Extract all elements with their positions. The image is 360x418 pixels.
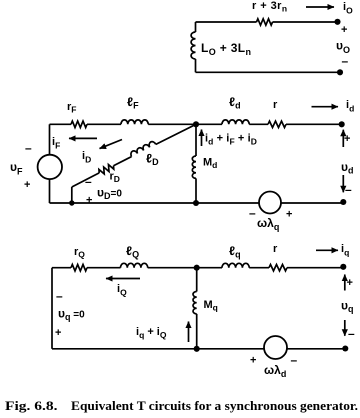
wire top-circuit top (right of resistor) <box>273 21 338 23</box>
svg-text:υF: υF <box>10 160 23 177</box>
svg-text:Md: Md <box>203 157 217 171</box>
current arrow iO <box>306 6 334 8</box>
svg-text:υO: υO <box>336 39 350 56</box>
inductor lD (rotated) <box>130 140 156 156</box>
svg-text:iq: iq <box>341 243 349 258</box>
svg-text:+: + <box>286 209 292 221</box>
resistor rD (rotated) <box>98 163 115 176</box>
current arrow iq <box>316 249 338 251</box>
resistor rF <box>71 121 87 127</box>
svg-text:iO: iO <box>343 1 353 16</box>
svg-text:id + iF + iD: id + iF + iD <box>205 133 257 147</box>
polarity arrow vq up <box>344 275 346 291</box>
terminal node q-axis top right <box>340 264 346 270</box>
wire d-axis left vertical upper <box>49 124 51 154</box>
wire diagonal riser <box>71 187 73 203</box>
svg-text:rD: rD <box>110 171 120 185</box>
svg-text:r: r <box>273 99 278 111</box>
svg-text:υD=0: υD=0 <box>97 186 122 202</box>
svg-text:–: – <box>345 183 352 197</box>
resistor r (d-axis) <box>268 121 286 127</box>
current arrow iD <box>100 140 123 149</box>
svg-text:iq + iQ: iq + iQ <box>136 326 167 340</box>
svg-text:–: – <box>56 289 63 303</box>
wire top-circuit left vertical (lower stub) <box>195 59 197 72</box>
svg-text:+: + <box>86 195 92 207</box>
wire q-axis bottom left <box>52 348 264 350</box>
inductor ld <box>222 120 249 124</box>
inductor Md <box>192 156 196 178</box>
svg-text:iD: iD <box>82 150 91 165</box>
resistor rQ <box>71 265 87 271</box>
svg-text:+: + <box>250 355 256 367</box>
svg-text:Mq: Mq <box>204 299 218 313</box>
svg-text:ωλq: ωλq <box>257 216 279 232</box>
wire q-axis top 2 <box>87 267 121 269</box>
svg-text:ωλd: ωλd <box>264 363 286 379</box>
source wld circle <box>264 336 287 359</box>
svg-text:ℓF: ℓF <box>127 95 139 111</box>
polarity arrow vd up <box>342 130 344 147</box>
svg-text:Equivalent T circuits for a sy: Equivalent T circuits for a synchronous … <box>71 398 358 413</box>
svg-text:+: + <box>55 327 61 339</box>
inductor lQ <box>121 263 148 267</box>
inductor Md branch lower wire <box>195 178 197 203</box>
svg-text:ℓd: ℓd <box>229 95 241 111</box>
terminal node q-axis bottom right <box>342 345 348 351</box>
wire d-axis top 1 <box>50 123 72 125</box>
svg-text:ℓQ: ℓQ <box>126 244 139 260</box>
current arrow iQ <box>106 278 140 280</box>
wire d-axis bottom right <box>281 202 343 204</box>
wire q-axis top 1 <box>52 267 71 269</box>
resistor r (q-axis) <box>269 265 287 271</box>
svg-text:Fig. 6.8.: Fig. 6.8. <box>5 398 58 413</box>
wire q-axis left vertical <box>51 268 53 349</box>
wire q-axis top 4 <box>249 267 269 269</box>
inductor Mq branch lower wire <box>196 314 198 349</box>
wire d-axis top 4 <box>249 123 268 125</box>
svg-text:–: – <box>342 54 349 68</box>
source wlq circle <box>259 192 281 214</box>
inductor lq <box>222 263 249 267</box>
svg-text:id: id <box>346 99 354 114</box>
svg-text:r: r <box>273 243 278 255</box>
inductor Mq branch upper wire <box>196 268 198 292</box>
voltage source vF <box>38 155 62 179</box>
svg-text:υq: υq <box>341 299 353 315</box>
svg-text:υd: υd <box>341 160 353 176</box>
wire q-axis bottom right <box>287 348 345 350</box>
svg-text:+: + <box>341 24 347 36</box>
svg-text:rQ: rQ <box>74 246 85 260</box>
current arrow id+iF+iD <box>201 130 203 147</box>
wire d-axis left vertical lower <box>49 179 51 203</box>
svg-text:+: + <box>344 133 350 145</box>
svg-text:–: – <box>291 353 298 367</box>
svg-text:iQ: iQ <box>117 283 127 298</box>
resistor r+3rn <box>257 19 273 25</box>
terminal node d-axis top right <box>339 121 345 127</box>
inductor lF <box>121 120 148 124</box>
wire diagonal segment 1 <box>72 173 99 187</box>
wire d-axis top 2 <box>87 123 121 125</box>
svg-text:LO + 3Ln: LO + 3Ln <box>201 41 251 57</box>
inductor Mq <box>193 292 197 314</box>
svg-text:–: – <box>85 175 92 189</box>
polarity arrow vd down <box>342 175 344 192</box>
wire d-axis bottom left <box>50 202 260 204</box>
node dot Mq bottom <box>194 346 200 352</box>
svg-text:–: – <box>25 141 32 155</box>
polarity arrow vq down <box>344 320 346 336</box>
node dot q-axis top junction <box>194 265 200 271</box>
svg-text:+: + <box>347 277 353 289</box>
svg-text:iF: iF <box>52 136 60 151</box>
wire q-axis top 5 <box>287 267 343 269</box>
svg-text:rF: rF <box>67 101 76 115</box>
wire top-circuit left vertical (upper stub) <box>195 22 197 32</box>
svg-text:ℓq: ℓq <box>229 244 241 260</box>
svg-text:r + 3rn: r + 3rn <box>252 0 288 14</box>
terminal node top-circuit bottom <box>337 69 343 75</box>
wire top-circuit top (left of resistor) <box>196 21 257 23</box>
svg-text:υq =0: υq =0 <box>58 307 85 323</box>
wire q-axis top 3 <box>148 267 222 269</box>
terminal node d-axis bottom right <box>340 199 346 205</box>
svg-text:–: – <box>249 206 256 220</box>
wire d-axis top 5 <box>286 123 342 125</box>
wire d-axis top 3 <box>148 123 222 125</box>
node dot diagonal junction <box>69 200 74 205</box>
wire diagonal segment 2 <box>114 157 132 166</box>
current arrow iF <box>69 137 97 139</box>
inductor LO+3Ln coil <box>191 32 195 59</box>
node dot Md bottom <box>193 200 199 206</box>
current arrow iq+iQ <box>188 322 190 343</box>
terminal node top-circuit top <box>334 19 340 25</box>
svg-text:–: – <box>348 327 355 341</box>
wire diagonal segment 3 <box>156 124 196 144</box>
svg-text:+: + <box>24 179 30 191</box>
svg-text:ℓD: ℓD <box>146 152 159 168</box>
node dot d-axis top junction <box>193 121 199 127</box>
wire top-circuit bottom <box>196 71 341 73</box>
current arrow id <box>312 106 339 108</box>
inductor Md branch upper wire <box>195 124 197 156</box>
